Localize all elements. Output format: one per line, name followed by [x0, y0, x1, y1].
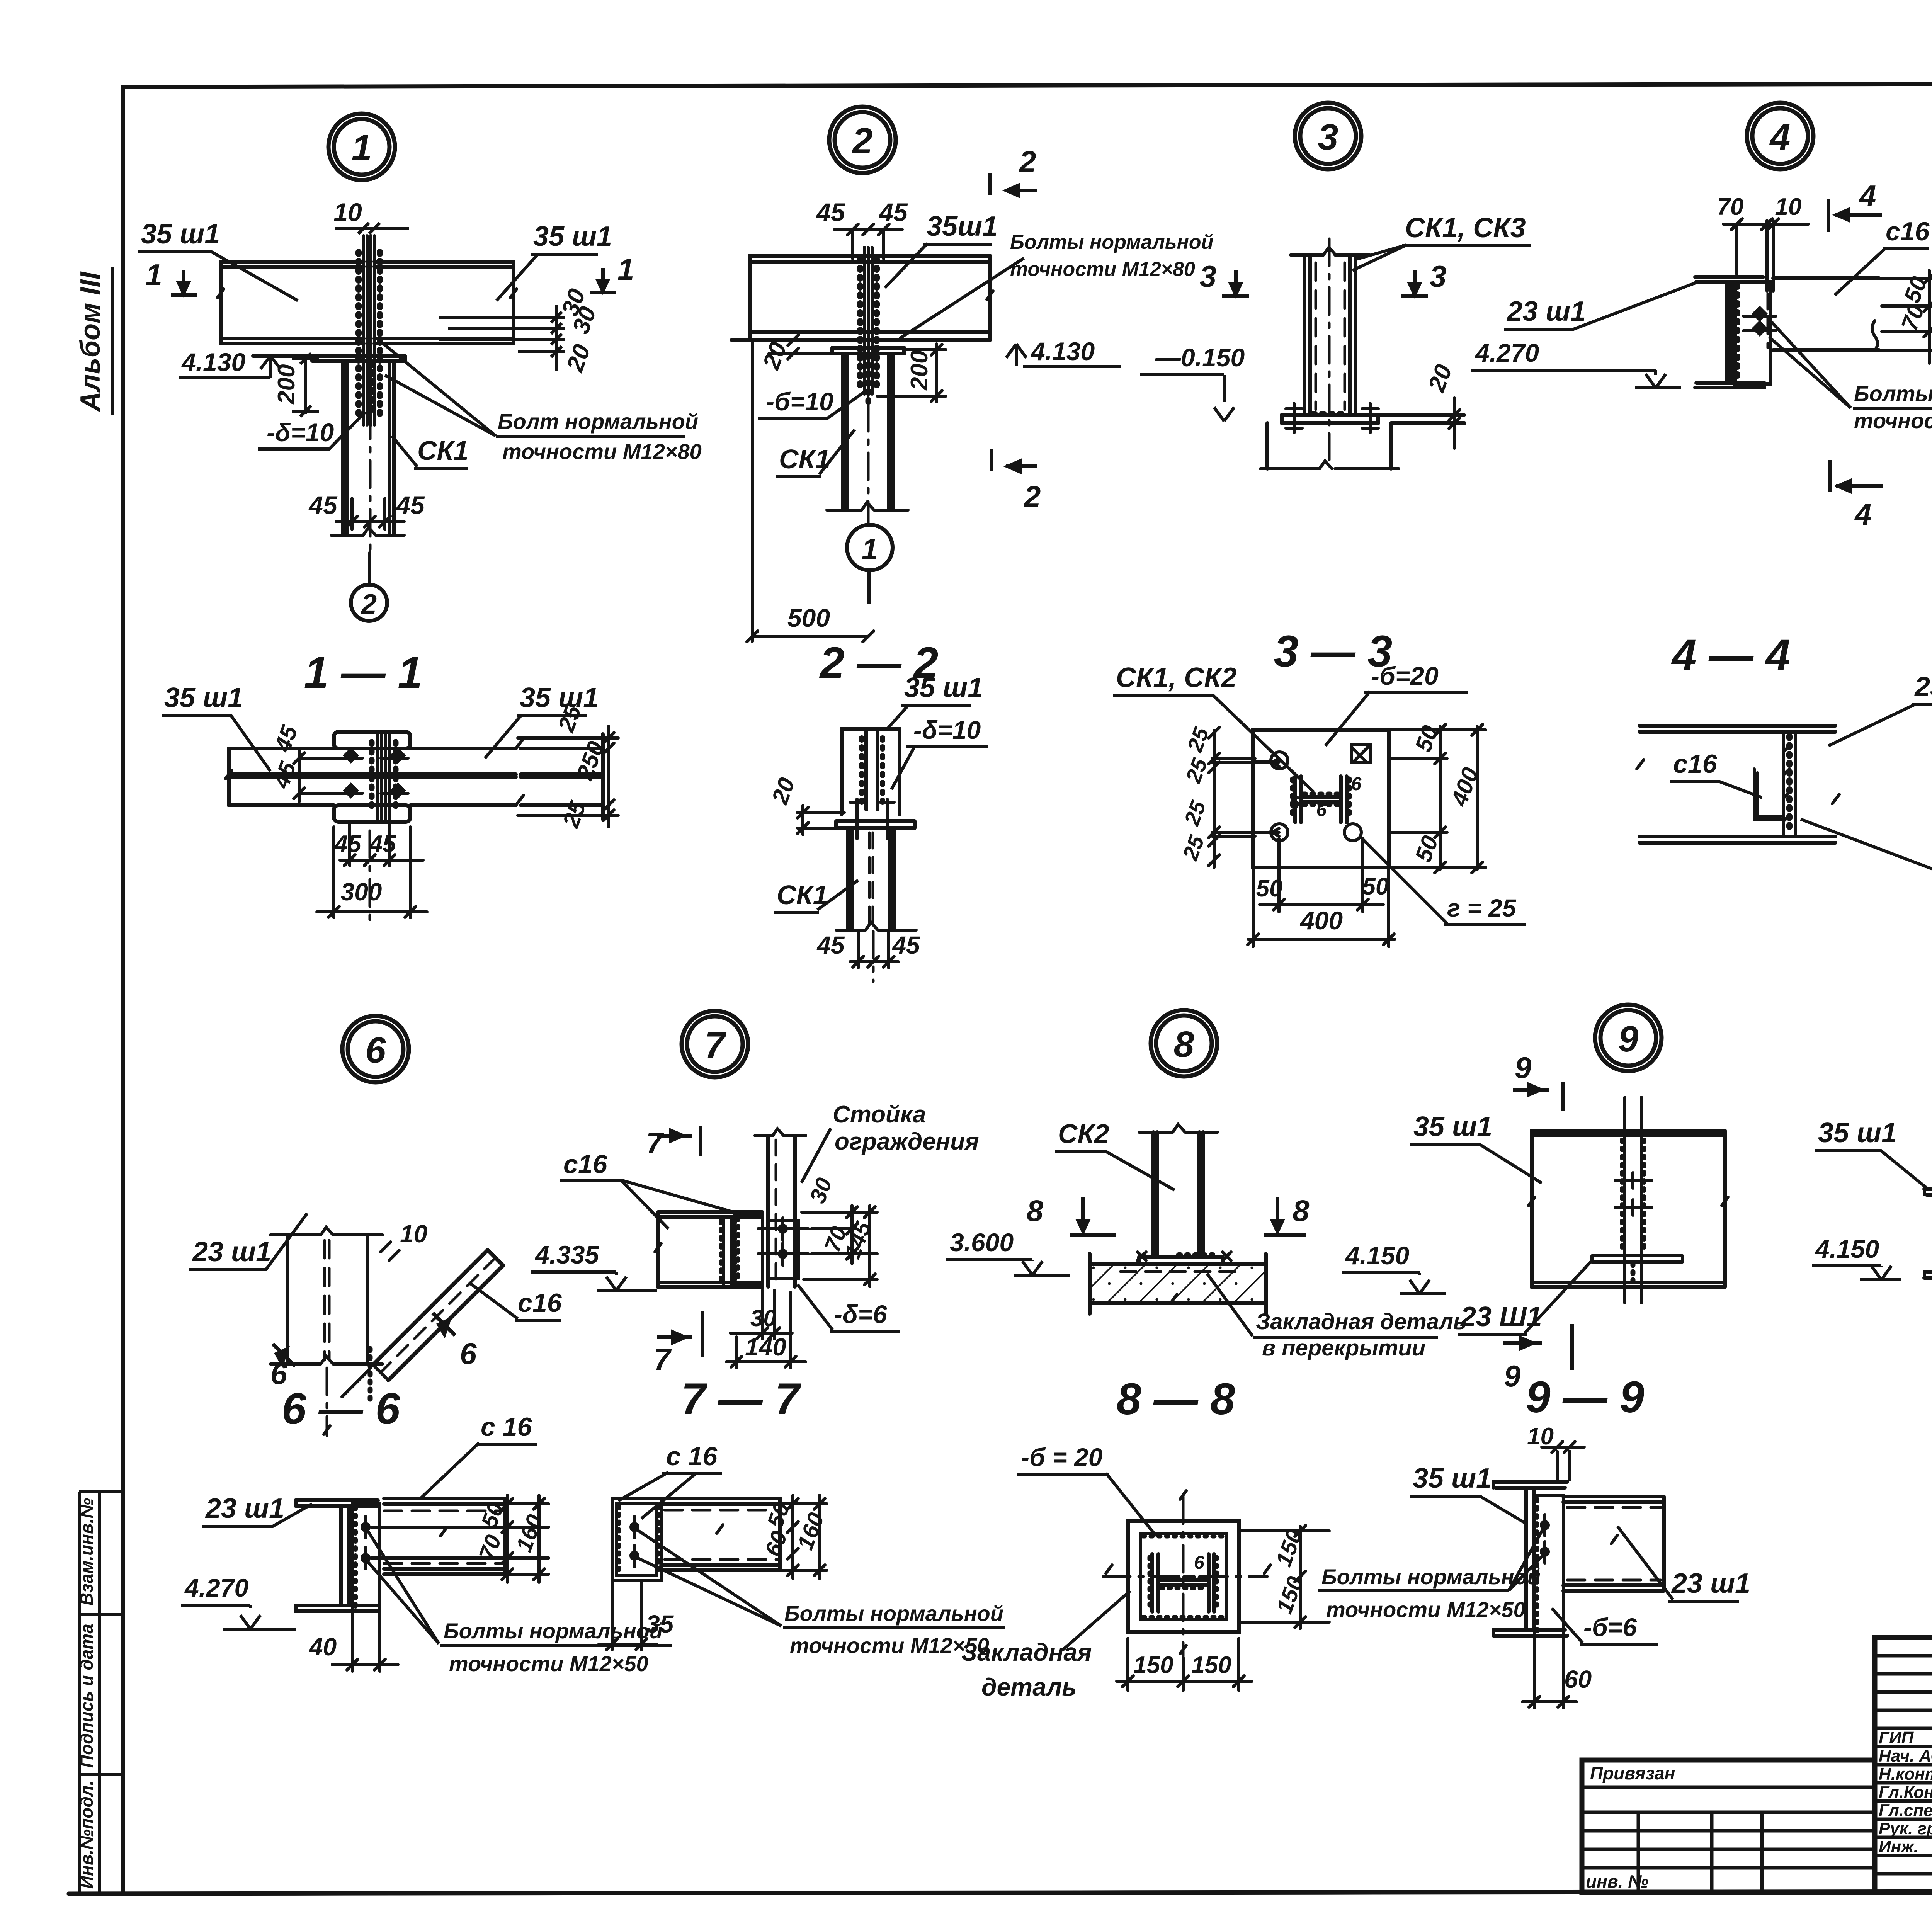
svg-text:1: 1 — [146, 258, 162, 292]
bottom dims — [726, 1291, 806, 1368]
svg-text:23 ш1: 23 ш1 — [192, 1236, 271, 1267]
svg-text:60: 60 — [1564, 1665, 1592, 1693]
svg-text:6: 6 — [270, 1357, 287, 1391]
svg-text:3: 3 — [1318, 117, 1338, 158]
svg-text:20: 20 — [1423, 361, 1458, 395]
bracket plate — [1735, 282, 1770, 384]
20 dim left — [731, 340, 837, 354]
cap plate + column — [832, 348, 904, 354]
svg-text:с16: с16 — [1886, 217, 1930, 246]
section marks 3 — [1222, 270, 1428, 296]
svg-text:Болты нормальной: Болты нормальной — [444, 1619, 663, 1643]
svg-text:45: 45 — [395, 491, 425, 519]
section marks 4 — [1828, 199, 1883, 492]
svg-text:ГИП: ГИП — [1879, 1728, 1914, 1747]
svg-text:35 ш1: 35 ш1 — [1818, 1117, 1897, 1148]
svg-text:Инв.№подл.: Инв.№подл. — [77, 1781, 97, 1889]
svg-text:3.600: 3.600 — [950, 1228, 1014, 1257]
svg-text:35 ш1: 35 ш1 — [533, 221, 612, 252]
slab — [1090, 1264, 1266, 1303]
svg-text:Нач. АСО: Нач. АСО — [1879, 1747, 1932, 1765]
svg-text:г = 25: г = 25 — [1447, 894, 1517, 922]
left attachment boxes — [79, 1492, 123, 1894]
svg-text:8: 8 — [1174, 1024, 1194, 1065]
column — [343, 361, 394, 535]
svg-text:точности М12×80: точности М12×80 — [1010, 258, 1195, 281]
svg-text:4.130: 4.130 — [181, 348, 245, 376]
svg-text:10: 10 — [1527, 1423, 1554, 1450]
svg-text:4.270: 4.270 — [184, 1573, 248, 1602]
svg-text:Болт нормальной: Болт нормальной — [498, 409, 698, 434]
svg-text:10: 10 — [400, 1220, 427, 1248]
svg-text:1: 1 — [352, 128, 372, 168]
top dims 70 10 — [1723, 224, 1808, 274]
svg-text:1 — 1: 1 — 1 — [304, 648, 423, 697]
svg-text:45: 45 — [878, 198, 908, 226]
svg-text:140: 140 — [745, 1333, 786, 1361]
cap plate — [312, 356, 405, 361]
svg-text:9 — 9: 9 — 9 — [1526, 1372, 1645, 1422]
svg-text:Закладная деталь: Закладная деталь — [1256, 1309, 1466, 1334]
section mark 1 left / right — [171, 268, 616, 295]
svg-text:20: 20 — [767, 774, 800, 808]
bolts — [1754, 308, 1765, 334]
svg-text:45: 45 — [334, 831, 362, 857]
svg-text:25: 25 — [1181, 755, 1212, 786]
svg-text:деталь: деталь — [981, 1673, 1077, 1701]
svg-text:6: 6 — [1316, 800, 1327, 820]
svg-text:23 ш1: 23 ш1 — [1671, 1568, 1750, 1599]
svg-text:35 ш1: 35 ш1 — [1413, 1463, 1492, 1494]
40 dim — [332, 1613, 398, 1671]
bottom dims — [1248, 838, 1395, 947]
svg-text:35 ш1: 35 ш1 — [904, 672, 983, 703]
svg-text:6: 6 — [1289, 793, 1300, 813]
svg-text:точности М12×50: точности М12×50 — [1326, 1597, 1526, 1622]
svg-text:35: 35 — [646, 1610, 674, 1638]
10 dim top — [335, 223, 409, 234]
svg-text:4.150: 4.150 — [1345, 1241, 1409, 1270]
svg-text:45: 45 — [308, 491, 338, 519]
title block — [1582, 1638, 1932, 1892]
svg-text:25: 25 — [558, 797, 591, 831]
splice bolts verticals — [364, 236, 374, 425]
svg-text:—0.150: —0.150 — [1155, 343, 1245, 372]
svg-text:точности М12×50: точности М12×50 — [790, 1633, 989, 1658]
svg-text:30: 30 — [750, 1305, 776, 1331]
svg-text:9: 9 — [1618, 1019, 1639, 1060]
svg-text:25: 25 — [1182, 724, 1214, 755]
svg-text:с16: с16 — [563, 1150, 608, 1179]
svg-text:70: 70 — [1717, 194, 1744, 220]
svg-text:точности М12×50: точности М12×50 — [449, 1651, 648, 1676]
right dims — [1389, 726, 1486, 869]
svg-text:2: 2 — [1023, 480, 1041, 514]
svg-text:4.270: 4.270 — [1475, 338, 1539, 367]
detail number circles — [328, 100, 1932, 1082]
svg-text:35 ш1: 35 ш1 — [164, 682, 243, 713]
svg-text:50: 50 — [1362, 873, 1389, 900]
beam c16 — [1773, 278, 1879, 350]
svg-text:160: 160 — [793, 1509, 829, 1553]
small rows left column — [1875, 1654, 1932, 1658]
svg-text:45: 45 — [369, 831, 396, 857]
svg-text:Альбом III: Альбом III — [75, 271, 106, 412]
svg-text:150: 150 — [1191, 1652, 1231, 1679]
svg-text:-б=20: -б=20 — [1371, 662, 1439, 690]
svg-text:с 16: с 16 — [481, 1412, 532, 1442]
svg-text:8 — 8: 8 — 8 — [1117, 1374, 1235, 1424]
svg-text:20: 20 — [561, 341, 596, 375]
200 dim — [292, 356, 319, 414]
svg-text:СК2: СК2 — [1058, 1119, 1109, 1149]
svg-text:6: 6 — [1351, 774, 1362, 794]
outer heavy borders — [1875, 1638, 1932, 1892]
svg-text:400: 400 — [1299, 906, 1343, 935]
svg-text:точности М12×80: точности М12×80 — [502, 439, 702, 464]
svg-text:9: 9 — [1504, 1359, 1521, 1393]
svg-text:4: 4 — [1859, 179, 1876, 213]
svg-text:1: 1 — [862, 533, 878, 566]
svg-text:СК1: СК1 — [777, 880, 828, 910]
svg-text:35 ш1: 35 ш1 — [1413, 1111, 1492, 1142]
svg-text:Стойка: Стойка — [833, 1101, 926, 1128]
svg-text:Подпись и дата: Подпись и дата — [77, 1624, 97, 1768]
svg-text:10: 10 — [333, 198, 362, 226]
anchor bolts — [1286, 403, 1378, 433]
svg-text:4: 4 — [1854, 497, 1871, 531]
foundation — [1267, 423, 1464, 469]
svg-text:30: 30 — [805, 1175, 837, 1207]
svg-text:-б=10: -б=10 — [766, 387, 833, 416]
svg-text:Инж.: Инж. — [1879, 1837, 1918, 1856]
svg-text:8: 8 — [1293, 1194, 1310, 1228]
svg-text:200: 200 — [273, 364, 300, 405]
svg-text:500: 500 — [787, 604, 830, 632]
base plate — [1282, 415, 1378, 423]
svg-text:45: 45 — [816, 198, 845, 226]
shelf line 4.130 — [253, 354, 405, 358]
svg-text:35ш1: 35ш1 — [927, 211, 998, 242]
top 45 45 dim — [835, 230, 902, 259]
right continuation — [521, 734, 603, 819]
svg-text:2: 2 — [1019, 145, 1036, 179]
20 dim — [1378, 398, 1464, 448]
svg-text:150: 150 — [1271, 1526, 1307, 1570]
svg-text:-б = 20: -б = 20 — [1021, 1443, 1103, 1471]
left small lines + dims — [1212, 759, 1255, 836]
svg-text:9: 9 — [1515, 1051, 1532, 1085]
svg-text:4.130: 4.130 — [1030, 337, 1095, 366]
H column section — [1295, 776, 1347, 822]
svg-text:Привязан: Привязан — [1590, 1763, 1675, 1783]
svg-text:Взам.инв.№: Взам.инв.№ — [77, 1498, 97, 1605]
svg-text:Гл.спец.: Гл.спец. — [1879, 1801, 1932, 1820]
svg-text:6 — 6: 6 — 6 — [282, 1384, 401, 1434]
45 dims left — [299, 750, 348, 802]
svg-text:3: 3 — [1200, 259, 1216, 293]
circle 2 leader — [351, 585, 387, 621]
svg-text:с16: с16 — [1673, 749, 1718, 779]
svg-text:200: 200 — [906, 350, 933, 391]
post plate — [769, 1221, 799, 1279]
svg-text:Болты нормальной: Болты нормальной — [1010, 231, 1213, 253]
svg-text:25: 25 — [1179, 797, 1211, 829]
svg-text:10: 10 — [1775, 194, 1802, 220]
svg-text:3: 3 — [1430, 259, 1446, 293]
svg-text:Гл.Конс.: Гл.Конс. — [1879, 1783, 1932, 1802]
beams — [221, 262, 514, 344]
svg-text:Болты нормальной: Болты нормальной — [784, 1601, 1003, 1626]
dims right — [802, 1212, 877, 1279]
svg-text:7: 7 — [705, 1025, 727, 1066]
right dims — [1879, 270, 1932, 363]
svg-text:23 ш1: 23 ш1 — [1914, 672, 1932, 702]
svg-text:2: 2 — [852, 121, 873, 162]
svg-text:160: 160 — [511, 1511, 548, 1555]
svg-text:50: 50 — [1256, 875, 1283, 902]
svg-text:4: 4 — [1769, 117, 1791, 158]
svg-text:7: 7 — [654, 1342, 672, 1376]
left extension rows — [1582, 1786, 1875, 1789]
right dims — [505, 1495, 549, 1582]
svg-text:45: 45 — [816, 931, 845, 959]
right dims — [518, 726, 618, 827]
svg-text:23 ш1: 23 ш1 — [205, 1493, 284, 1524]
svg-text:СК1, СК3: СК1, СК3 — [1405, 213, 1526, 243]
svg-text:40: 40 — [308, 1633, 337, 1661]
svg-text:50: 50 — [1410, 832, 1443, 866]
svg-text:Болты нормальной: Болты нормальной — [1321, 1565, 1541, 1589]
svg-text:с16: с16 — [518, 1288, 562, 1318]
svg-text:6: 6 — [366, 1030, 386, 1071]
svg-text:с 16: с 16 — [666, 1442, 718, 1471]
svg-text:-δ=10: -δ=10 — [267, 418, 334, 447]
svg-text:инв. №: инв. № — [1586, 1871, 1648, 1891]
svg-text:35 ш1: 35 ш1 — [520, 682, 599, 713]
svg-text:35 ш1: 35 ш1 — [141, 219, 220, 250]
svg-text:-δ=6: -δ=6 — [834, 1300, 888, 1328]
bottom 45 45 300 dims — [317, 822, 427, 918]
svg-text:Рук. гр.: Рук. гр. — [1879, 1819, 1932, 1838]
svg-text:4 — 4: 4 — 4 — [1671, 631, 1791, 680]
svg-text:СК1: СК1 — [417, 435, 469, 466]
200 dim right — [877, 344, 946, 402]
bottom 45 45 dim — [336, 498, 404, 529]
svg-text:ограждения: ограждения — [835, 1128, 979, 1155]
corner holes — [1271, 752, 1361, 841]
svg-text:7 — 7: 7 — 7 — [681, 1374, 802, 1424]
svg-text:150: 150 — [1133, 1652, 1173, 1679]
svg-text:7: 7 — [646, 1126, 664, 1160]
svg-text:50: 50 — [1410, 722, 1443, 755]
section marks 2 — [990, 173, 1037, 471]
svg-text:150: 150 — [1272, 1573, 1308, 1617]
svg-text:точности М12 × 50: точности М12 × 50 — [1854, 408, 1932, 433]
svg-text:4.150: 4.150 — [1815, 1235, 1879, 1263]
svg-text:-б=6: -б=6 — [1583, 1613, 1637, 1641]
svg-text:23 ш1: 23 ш1 — [1506, 296, 1586, 327]
right 30 30 20 dims — [439, 305, 565, 371]
svg-text:Н.контр.: Н.контр. — [1879, 1765, 1932, 1784]
section titles — [282, 627, 1932, 1434]
svg-text:2: 2 — [361, 589, 377, 620]
svg-text:-δ=10: -δ=10 — [913, 716, 981, 744]
gap verticals — [1767, 221, 1773, 291]
svg-text:8: 8 — [1027, 1194, 1044, 1228]
beam c16 — [658, 1212, 762, 1287]
svg-text:4.335: 4.335 — [534, 1240, 599, 1269]
svg-text:300: 300 — [341, 878, 382, 906]
svg-text:Болты нормальной: Болты нормальной — [1854, 381, 1932, 406]
fence post — [768, 1136, 795, 1287]
500 dim bottom — [752, 342, 870, 641]
svg-text:1: 1 — [617, 252, 634, 286]
svg-text:6: 6 — [460, 1337, 477, 1371]
svg-text:20: 20 — [758, 338, 792, 373]
svg-text:6: 6 — [1194, 1553, 1204, 1573]
svg-text:25: 25 — [1178, 832, 1209, 864]
svg-text:СК1, СК2: СК1, СК2 — [1116, 662, 1237, 693]
svg-text:45: 45 — [891, 931, 920, 959]
